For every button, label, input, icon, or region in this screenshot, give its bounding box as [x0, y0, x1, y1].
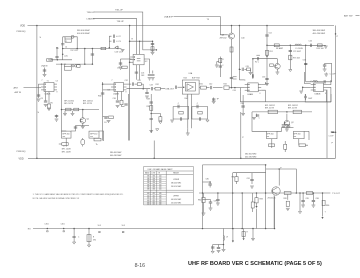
capacitor C3: [113, 39, 114, 42]
ground TP: [212, 102, 216, 104]
resistor R42 inline: [224, 86, 229, 89]
capacitor C56: [258, 57, 259, 60]
svg-text:380 400 MHZ: 380 400 MHZ: [77, 30, 90, 32]
ground x152.5: [151, 53, 155, 55]
wire Q6 collector: [286, 114, 288, 121]
wire R45 gnd stub: [250, 69, 252, 72]
wire FL1 down: [65, 138, 67, 146]
wire R22 stub 2: [216, 62, 218, 65]
junction out node: [142, 88, 144, 90]
svg-text:U3A/B: U3A/B: [113, 93, 119, 96]
wire FL4 out: [304, 130, 309, 132]
junction C57: [305, 63, 307, 65]
junction y48.5 m1: [84, 48, 86, 50]
svg-text:R42: R42: [224, 84, 227, 86]
svg-text:TFP 2327: TFP 2327: [70, 50, 78, 52]
capacitor C41: [175, 86, 176, 89]
svg-text:380: 380: [147, 176, 150, 178]
capacitor C82: [209, 202, 212, 203]
junction Q3 rail: [231, 25, 233, 27]
svg-text:R41: R41: [200, 84, 203, 86]
resistor R34: [109, 116, 114, 119]
wire F1 leads: [64, 64, 71, 66]
wire TP drop: [213, 98, 215, 102]
wire TX line y193: [199, 192, 330, 194]
ground C4: [107, 121, 111, 123]
wire fb gnd stub: [187, 128, 189, 133]
resistor R51: [265, 50, 268, 55]
resistor R55 inline: [318, 44, 323, 47]
wire line y64.1: [56, 63, 92, 65]
svg-text:380: 380: [147, 182, 150, 184]
wire U6 in top: [305, 72, 311, 84]
wire VDD drop x239.4: [238, 26, 240, 80]
wire Q5 collector: [276, 59, 278, 64]
junction VDD bottom: [36, 158, 38, 160]
wire U2 right drop: [147, 59, 150, 74]
wire U2 left stub: [121, 58, 132, 60]
wire C80 leads: [209, 182, 211, 188]
ground bias L: [170, 120, 174, 122]
wire out seg4: [229, 87, 245, 89]
svg-text:C55: C55: [309, 41, 312, 43]
junction x267 y56.3: [266, 56, 268, 58]
resistor R6 inline: [66, 108, 71, 111]
wire filter row left: [62, 109, 100, 111]
junction Q6: [286, 111, 288, 113]
junction x62.7 low: [62, 53, 64, 55]
wire branch x212.7: [212, 245, 214, 251]
svg-text:LOW: LOW: [152, 173, 156, 175]
wire U2 right drop 2: [152, 71, 154, 74]
capacitor C36: [116, 101, 119, 102]
wire C56 top: [256, 54, 260, 56]
svg-text:VDD: VDD: [20, 25, 25, 28]
capacitor C62: [282, 126, 285, 127]
wire U3 out a2: [135, 83, 138, 85]
junction P4: [278, 168, 280, 170]
svg-text:(-N): (-N): [64, 56, 67, 58]
capacitor C305: [217, 247, 220, 248]
capacitor C44: [212, 99, 215, 100]
wire bottom rail y228.5: [33, 228, 275, 230]
ground C8: [44, 105, 48, 107]
svg-text:380: 380: [147, 189, 150, 191]
wire out seg2: [206, 87, 209, 89]
ground x89: [87, 245, 90, 247]
ground C82: [209, 208, 213, 210]
wire U4 left pin link: [239, 88, 241, 92]
junction x253: [252, 228, 254, 230]
svg-text:TXB UP: TXB UP: [117, 21, 125, 23]
svg-text:430: 430: [159, 193, 162, 195]
wire link FL3-FL4: [282, 127, 294, 129]
transistor Q6: [284, 120, 290, 126]
svg-text:L301: L301: [61, 224, 65, 226]
capacitor C1a: [61, 44, 64, 45]
svg-text:C32: C32: [125, 80, 128, 82]
resistor R45: [247, 68, 251, 71]
ground aux: [156, 129, 159, 131]
wire y81.8: [306, 81, 332, 83]
svg-text:C53: C53: [262, 77, 265, 79]
wire x239.4 stub: [239, 68, 241, 70]
wire C2 leads: [109, 35, 117, 37]
svg-text:U3: U3: [108, 90, 110, 92]
junction right cap: [335, 131, 337, 133]
svg-text:8: 8: [260, 93, 261, 95]
wire U3 down b: [121, 92, 123, 101]
wire x327 drop: [326, 90, 328, 159]
svg-text:R83: R83: [260, 199, 263, 201]
resistor R82: [202, 198, 205, 203]
wire C85 leads: [302, 193, 304, 205]
ground x290.3: [289, 70, 292, 72]
junction U6 in: [302, 87, 304, 89]
svg-text:10.5: 10.5: [98, 225, 102, 227]
junction TX b: [232, 192, 234, 194]
wire x252.9 stub: [252, 75, 254, 80]
wire into FL3: [252, 112, 267, 131]
resistor R36: [159, 117, 162, 121]
ground left y59.8: [49, 58, 51, 61]
wire C83 leads: [217, 193, 219, 203]
resistor R302: [87, 235, 91, 242]
transistor Q7: [272, 187, 280, 195]
wire U1 pin1 down: [39, 84, 42, 98]
svg-text:LNA EN: LNA EN: [87, 17, 95, 20]
capacitor C50: [252, 74, 253, 77]
wire TXB UP over U2: [94, 12, 156, 50]
ground Q1: [81, 127, 85, 129]
svg-text:430: 430: [159, 198, 162, 200]
wire R80 leads: [236, 173, 238, 184]
wire U3 in top: [103, 83, 111, 85]
ground C86: [312, 205, 316, 207]
wire drop x300: [299, 193, 301, 211]
svg-text:C3: C3: [118, 41, 120, 43]
wire U6 top gnd stub: [325, 73, 327, 74]
junction x240.8: [240, 158, 242, 160]
capacitor C25: [74, 127, 77, 128]
ground U6 in: [299, 91, 303, 93]
svg-text:390: 390: [153, 178, 156, 180]
capacitor C46: [180, 117, 181, 120]
ground row a: [252, 118, 256, 120]
svg-text:TXB_UP: TXB_UP: [115, 10, 123, 12]
capacitor C81: [250, 179, 253, 180]
svg-text:R31: R31: [138, 80, 141, 82]
junction U2 top: [139, 40, 141, 42]
capacitor C300c inline: [99, 231, 101, 232]
wire line y59.8: [51, 59, 72, 61]
ground x267: [265, 84, 269, 86]
ground C35: [145, 96, 149, 98]
capacitor C61: [256, 115, 259, 116]
capacitor C5: [55, 57, 58, 58]
wire C80 link: [203, 181, 211, 183]
ground x223.5: [222, 250, 226, 252]
capacitor C35: [145, 92, 148, 93]
svg-text:C3: C3: [56, 81, 58, 83]
wire U3 in bot: [103, 89, 111, 91]
capacitor C2: [113, 35, 114, 38]
capacitor C57: [304, 63, 307, 64]
wire VDD drop x129.6: [129, 26, 131, 141]
resistor R43: [179, 111, 183, 114]
junction x92.4 low: [92, 63, 94, 65]
wire branch x243.6: [243, 229, 245, 239]
capacitor C38: [150, 102, 153, 103]
ground C59: [323, 69, 327, 71]
svg-text:C 100P: C 100P: [330, 74, 337, 76]
wire PA x232.7: [232, 173, 234, 228]
ground x243.1: [241, 114, 245, 116]
resistor R41 inline: [201, 86, 207, 89]
wire bias loop L: [173, 107, 189, 120]
wire PA inner y172.7: [233, 172, 266, 174]
capacitor C85: [301, 200, 304, 201]
capacitor C64: [331, 132, 334, 133]
junction TX c: [256, 192, 258, 194]
wire drop x287.8: [287, 195, 289, 200]
wire y63.4: [325, 62, 332, 64]
wire LO loop: [240, 92, 331, 102]
svg-text:BPF 450: BPF 450: [267, 133, 274, 135]
wire RF amp line y45.3: [267, 44, 326, 46]
svg-text:380 400 MHZ: 380 400 MHZ: [245, 153, 257, 155]
mixer U1: [41, 83, 57, 92]
svg-text:TXB UP: TXB UP: [87, 12, 95, 14]
svg-text:BPL 14/28: BPL 14/28: [62, 151, 71, 153]
wire PA left x202.5: [202, 165, 204, 228]
junction x322.5: [322, 192, 324, 194]
wire U5 in: [178, 86, 183, 88]
svg-text:400: 400: [159, 176, 162, 178]
svg-text:BPL 52/78: BPL 52/78: [288, 108, 297, 110]
svg-text:400 430 MHZ: 400 430 MHZ: [245, 156, 257, 158]
mixer U4: [245, 83, 262, 92]
junction y48.5 m2: [92, 48, 94, 50]
resistor R44: [198, 111, 202, 114]
arrow RX out: [232, 241, 234, 243]
svg-text:415: 415: [153, 203, 156, 205]
wire U5 fb a: [187, 94, 189, 128]
wire x102.6 rail: [102, 82, 104, 141]
junction x267 y45.3: [266, 45, 268, 47]
resistor R7 inline: [74, 108, 79, 111]
capacitor C8: [44, 101, 47, 102]
svg-text:C49: C49: [246, 66, 249, 68]
wire Q1 collector: [82, 110, 84, 118]
svg-text:R80: R80: [232, 177, 235, 179]
junction y59.8: [57, 59, 59, 61]
ground Q5: [276, 72, 280, 74]
wire FL1 top link: [71, 126, 76, 132]
capacitor C24: [135, 72, 138, 73]
capacitor C39: [150, 118, 153, 119]
capacitor C16: [148, 74, 151, 75]
wire U4 out b: [261, 90, 265, 102]
svg-text:TX OUT: TX OUT: [332, 193, 340, 195]
junction right rail: [335, 33, 337, 35]
junction filter row L: [61, 109, 63, 111]
capacitor C42: [211, 86, 212, 89]
resistor R62 inline: [293, 110, 301, 113]
wire U5 out: [198, 87, 201, 89]
svg-text:400: 400: [159, 187, 162, 189]
wire drop x84.8: [84, 49, 86, 65]
svg-text:415: 415: [153, 200, 156, 202]
svg-text:10.5: 10.5: [122, 225, 126, 227]
mixer U6: [311, 83, 327, 92]
svg-text:C9: C9: [117, 68, 119, 70]
wire x331.7 drop: [331, 63, 333, 81]
svg-text:BPL 52/78: BPL 52/78: [83, 103, 92, 105]
svg-text:C86: C86: [316, 198, 319, 200]
svg-text:L2: L2: [65, 47, 67, 49]
svg-text:BPL 52/78: BPL 52/78: [64, 103, 73, 105]
inductor L8 inline: [306, 192, 312, 195]
ground C16: [148, 78, 152, 80]
resistor R31 inline: [137, 83, 141, 86]
wire branch x223.5: [223, 229, 225, 250]
svg-text:8: 8: [325, 93, 326, 95]
wire branch x74.1: [73, 229, 75, 242]
resistor R303: [242, 232, 245, 237]
wire x274.5 riser: [274, 197, 276, 229]
capacitor C51: [304, 94, 307, 100]
svg-text:400 430 MHZ: 400 430 MHZ: [110, 155, 122, 157]
ground C17: [151, 78, 155, 80]
junction x239.4 rail: [239, 25, 241, 27]
capacitor C22: [219, 66, 222, 67]
wire LNA BYP to Q3 gate: [174, 17, 228, 35]
svg-text:BPL 143/52: BPL 143/52: [64, 101, 74, 103]
svg-text:xxx: xxx: [63, 136, 66, 138]
svg-text:ANT SW: ANT SW: [344, 15, 353, 18]
filter FL2: [89, 131, 99, 138]
wire link to FL2: [76, 125, 90, 127]
wire bias loop R: [192, 107, 208, 120]
svg-text:380: 380: [147, 187, 150, 189]
svg-text:C85: C85: [306, 198, 309, 200]
capacitor C300a inline: [47, 231, 49, 232]
junction x61.5 top: [61, 63, 63, 65]
junction rail PA b: [232, 228, 234, 230]
svg-text:C60: C60: [241, 103, 244, 105]
svg-text:380 400 MHZ: 380 400 MHZ: [313, 30, 326, 32]
svg-text:415: 415: [153, 195, 156, 197]
svg-text:C8: C8: [41, 98, 43, 100]
svg-text:R40: R40: [185, 98, 188, 100]
wire filter line y48.5: [63, 48, 122, 50]
wire stub x218.5: [218, 245, 220, 248]
capacitor C49: [242, 68, 243, 71]
svg-text:C82: C82: [214, 201, 217, 203]
svg-text:L5 100N: L5 100N: [296, 48, 304, 50]
wire C49 link: [244, 68, 246, 70]
junction x265.6 TX: [265, 192, 267, 194]
ground Q6: [285, 129, 289, 131]
wire U6 bottom box: [305, 94, 331, 102]
ground R6: [63, 114, 67, 116]
ground R82: [202, 213, 206, 215]
wire L1 leads: [65, 37, 71, 39]
svg-text:C2: C2: [118, 36, 120, 38]
wire U2 bottom pin b: [139, 65, 141, 80]
svg-text:RF AMP: RF AMP: [276, 47, 284, 50]
wire R8 lead: [59, 143, 62, 145]
wire to LNA OUT: [160, 88, 165, 90]
wire U4 out a: [261, 82, 265, 85]
svg-text:R35: R35: [147, 106, 150, 108]
inductor L6: [313, 80, 318, 81]
wire C82 link: [203, 199, 211, 201]
junction x290.3: [290, 45, 292, 47]
transistor Q1: [80, 118, 86, 124]
svg-text:1. THE VCO GAIN BAND VALUES AR: 1. THE VCO GAIN BAND VALUES ARE NOTED BY…: [33, 193, 124, 196]
wire branch x89: [88, 229, 90, 245]
svg-text:BPL 143/52: BPL 143/52: [288, 105, 298, 107]
wire left chain rail x61.5: [61, 64, 63, 131]
wire x252.9 drop: [252, 59, 254, 75]
ground x44.5: [43, 75, 47, 77]
resistor R86: [322, 200, 325, 205]
wire x267 drop: [266, 26, 268, 85]
ground R85: [286, 208, 290, 210]
wire R7 gnd stub: [72, 111, 74, 113]
wire Q1 emitter: [82, 123, 84, 126]
svg-text:UPPER: UPPER: [173, 195, 180, 197]
svg-text:LOWER: LOWER: [173, 179, 180, 181]
svg-text:390: 390: [153, 176, 156, 178]
junction U2 left: [129, 61, 131, 63]
wire loop top y36.8: [63, 37, 77, 49]
ground C81: [250, 186, 254, 188]
wire R64 leads: [284, 141, 286, 152]
resistor R11: [151, 47, 154, 51]
svg-text:ANT IN: ANT IN: [15, 91, 22, 94]
wire filter row right: [252, 111, 312, 113]
wire R33 link: [122, 105, 125, 107]
capacitor C18: [119, 63, 122, 64]
svg-text:NOTE: VALUES SHOWN NOMINAL SPE: NOTE: VALUES SHOWN NOMINAL SPECIFIED XX: [33, 197, 80, 200]
svg-text:L9: L9: [226, 237, 228, 239]
mixer U3: [111, 83, 127, 92]
svg-text:R55 100: R55 100: [317, 48, 324, 50]
resistor R9: [94, 138, 101, 141]
junction rail b: [63, 228, 64, 230]
arrow x243.6: [243, 238, 245, 240]
wire link x212.7: [213, 244, 224, 246]
svg-text:380 400 MHZ: 380 400 MHZ: [171, 183, 181, 185]
svg-text:T1: T1: [47, 81, 49, 83]
svg-text:380: 380: [147, 178, 150, 180]
svg-text:2N7002: 2N7002: [220, 38, 228, 40]
resistor R4: [77, 65, 80, 68]
transistor Q3: [229, 33, 235, 39]
svg-text:C52: C52: [269, 33, 272, 35]
svg-text:415: 415: [153, 198, 156, 200]
ground x74.1: [73, 242, 76, 244]
wire FL3 top link: [277, 128, 282, 132]
wire U2 top pin VDD: [139, 41, 141, 54]
wire PA loop right: [266, 169, 297, 193]
ground R5: [47, 109, 51, 111]
wire x56.5 drop: [56, 115, 58, 119]
junction C83: [217, 192, 219, 194]
